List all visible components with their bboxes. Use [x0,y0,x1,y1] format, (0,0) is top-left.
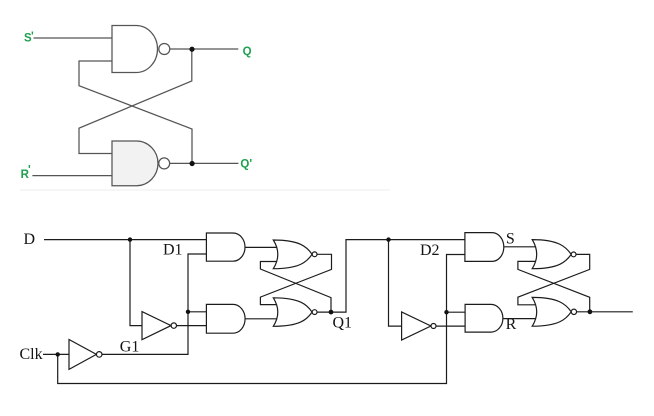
nor gate N1 (master top) [273,240,312,269]
wire Clk feedback to slave stage [58,255,465,384]
wire S AND A3 output to NOR N3 [504,246,537,248]
bubble N1 [312,252,317,257]
bubble N3 [571,252,576,257]
wire Q output [170,48,239,50]
bubble N4 [571,309,576,314]
node slave clock junction [444,310,448,314]
and gate A2 (master bottom) [206,304,245,333]
bubble G3 [431,324,436,329]
wire S' input [34,37,113,39]
wire D input [44,239,206,241]
svg-text:Q': Q' [240,159,252,171]
wire final output [577,311,633,313]
bubble G1 [96,352,102,358]
wire slave coupling N4 out to N3 input [518,261,590,311]
svg-text:S: S [506,230,515,247]
svg-text:': ' [28,165,31,177]
svg-text:R: R [506,316,517,333]
node Q1 junction [329,310,334,315]
wire branch to AND A4 upper input [447,311,466,313]
wire R' input [32,175,112,177]
wire branch down to inverter G3 [389,240,402,327]
svg-text:Q1: Q1 [333,315,353,332]
wire master coupling N2 out to N1 input [260,262,331,313]
wire D branch down to inverter G2 [130,240,142,326]
wire AND A1 output to NOR N1 [245,246,277,248]
and gate A4 (slave bottom) [465,304,503,332]
inverter G2 (data) [142,312,171,340]
node G1 line junction [186,310,190,314]
faint separator line [20,189,390,191]
wire inverter G3 output to AND A4 lower input [436,325,465,327]
wire inverter G2 output to AND A2 lower input [177,325,207,327]
bubble N2 [312,310,317,315]
inverter G3 (slave data) [402,312,431,340]
bubble U1 output [159,44,170,55]
nand gate U1 (top) [112,26,158,73]
wire feedback Q' to upper NAND input [79,61,192,163]
svg-text:D: D [24,231,36,248]
bubble U2 output [159,158,170,169]
nor gate N3 (slave top) [532,240,571,269]
wire Q1 output to slave stage [317,240,465,313]
nor gate N2 (master bottom) [273,298,312,327]
inverter G1 (clock) [69,340,96,370]
node D branch junction [128,237,132,241]
node D2 branch junction [386,237,390,241]
wire AND A2 output to NOR N2 [245,318,277,320]
svg-text:D2: D2 [420,242,440,259]
wire master coupling N1 out to N2 input [260,254,331,304]
wire slave coupling N3 out to N4 input [518,254,590,304]
node Q' junction [190,161,195,166]
node Clk branch junction [56,352,60,356]
node Q junction [189,47,194,52]
svg-text:Q: Q [243,46,252,58]
nor gate N4 (slave bottom) [532,297,571,326]
wire R AND A4 output to NOR N4 [503,318,536,320]
wire Clk input [43,353,69,355]
and gate A3 (slave top) [465,233,504,262]
wire Q' output [170,162,239,164]
wire feedback Q to lower NAND input [79,49,192,154]
nand gate U2 (bottom) [112,141,158,186]
svg-text:': ' [31,31,34,43]
svg-text:G1: G1 [120,339,140,356]
wire branch to AND A2 upper input [188,311,206,313]
and gate A1 (master top) [206,233,245,261]
svg-text:D1: D1 [163,242,183,259]
bubble G2 [171,323,176,328]
node output junction [588,309,593,314]
wire G1 output up to AND A1 lower input [102,254,206,354]
svg-text:Clk: Clk [20,346,43,363]
